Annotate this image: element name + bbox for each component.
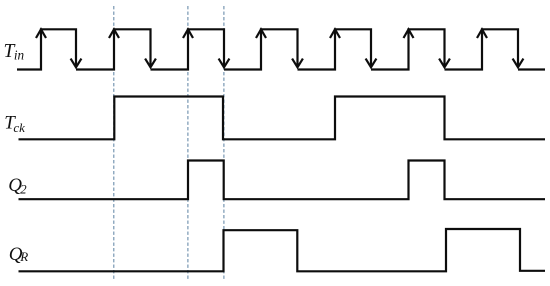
label T_in — [4, 41, 25, 63]
label T_ck — [4, 113, 25, 135]
dashed guide line at third T_in rising edge — [187, 6, 189, 279]
waveform T_ck — [19, 97, 546, 140]
dashed guide line at third T_in falling edge — [223, 6, 225, 279]
svg-text:Q2: Q2 — [8, 175, 27, 197]
dashed guide line at second T_in rising edge — [113, 6, 115, 279]
label Q_2 — [8, 175, 27, 197]
T_in falling-edge down arrowheads — [71, 59, 524, 68]
svg-text:Tck: Tck — [4, 113, 25, 135]
waveform Q_2 — [19, 161, 546, 200]
svg-text:Tin: Tin — [4, 41, 25, 63]
label Q_R — [9, 244, 29, 265]
svg-text:QR: QR — [9, 244, 29, 265]
T_in rising-edge up arrowheads — [36, 29, 487, 38]
waveform T_in square wave — [17, 29, 545, 69]
waveform Q_R — [19, 229, 546, 271]
